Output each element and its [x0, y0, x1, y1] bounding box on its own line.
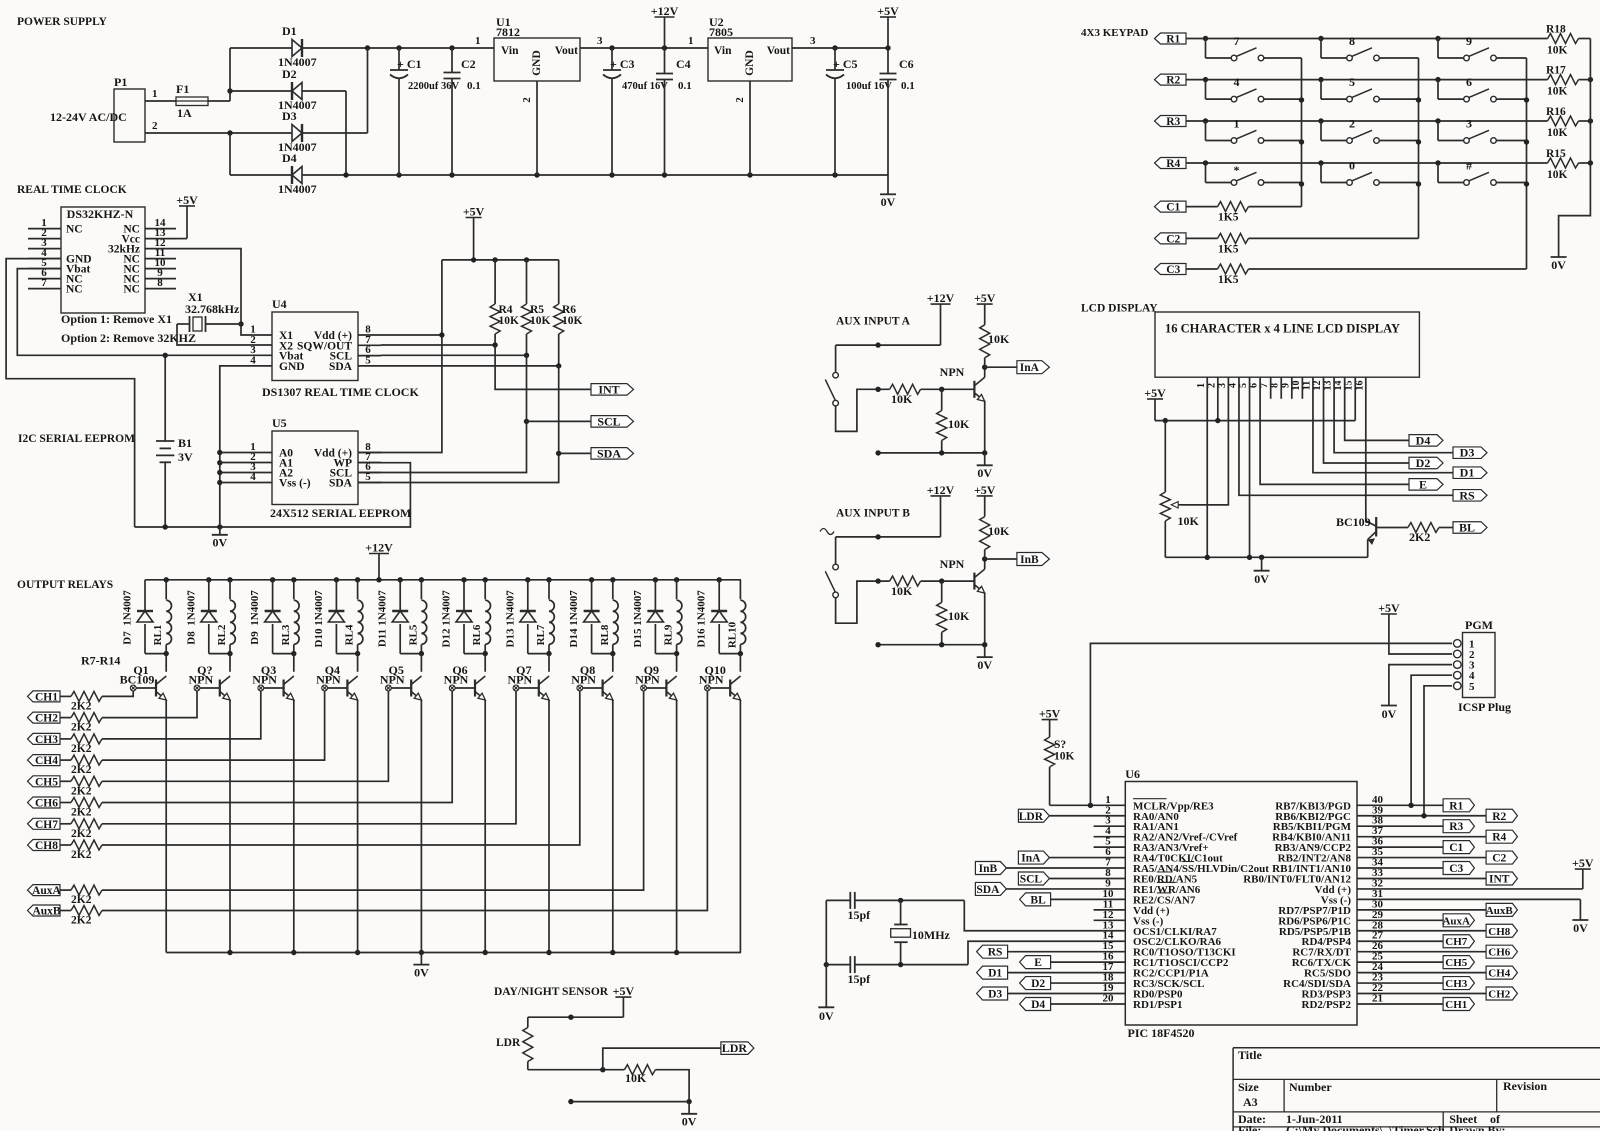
+5V rail LCD [1155, 420, 1355, 422]
wire 1K5 to column [1249, 206, 1302, 208]
wire pin26 to CH6 [1357, 951, 1486, 953]
svg-text:0V: 0V [682, 1115, 697, 1129]
net flag C1 [1155, 201, 1187, 212]
svg-text:LDR: LDR [1019, 811, 1044, 823]
connector P1 [114, 89, 145, 142]
resistor R15 10K [1548, 158, 1579, 168]
svg-text:0.1: 0.1 [678, 80, 692, 92]
svg-text:15pf: 15pf [848, 972, 872, 986]
wire +5V to ICSP pin2 [1389, 614, 1452, 654]
svg-text:File:: File: [1238, 1123, 1261, 1131]
svg-text:D1: D1 [282, 24, 297, 38]
net flag C1 [1443, 841, 1474, 854]
wire D7 to RL1 bottom [145, 653, 166, 655]
svg-text:DS1307 REAL TIME CLOCK: DS1307 REAL TIME CLOCK [262, 385, 419, 399]
svg-text:AUX INPUT A: AUX INPUT A [836, 316, 911, 328]
svg-text:InB: InB [979, 863, 998, 875]
relay coil RL5 [420, 580, 422, 600]
svg-text:INT: INT [598, 382, 619, 396]
svg-text:U5: U5 [272, 416, 287, 430]
svg-text:Vss (-): Vss (-) [279, 478, 311, 490]
U6 pin5 stub [1094, 846, 1126, 848]
svg-text:10K: 10K [562, 315, 583, 327]
svg-text:8: 8 [157, 277, 163, 289]
svg-text:R2: R2 [1492, 811, 1506, 823]
svg-text:+5V: +5V [974, 483, 996, 497]
svg-text:NPN: NPN [571, 673, 596, 687]
diode D7 1N4007 [144, 580, 146, 611]
svg-text:GND: GND [744, 50, 756, 76]
wire divider to LDR flag [603, 1048, 721, 1070]
wire pin29 to AuxA [1357, 919, 1443, 921]
svg-text:0V: 0V [1573, 921, 1588, 935]
svg-text:2K2: 2K2 [71, 700, 92, 712]
svg-text:RS: RS [1459, 488, 1475, 502]
net flag CH6 [28, 797, 61, 808]
net flag RS lcd [1453, 490, 1487, 502]
+12V relay rail [145, 579, 741, 581]
wire C2 row [1186, 237, 1218, 239]
wire node B down to D4 [229, 133, 231, 175]
svg-text:RL1: RL1 [152, 625, 164, 646]
net flag CH5 pic [1443, 956, 1474, 969]
svg-text:R3: R3 [1449, 821, 1463, 833]
svg-text:CH4: CH4 [1488, 968, 1511, 980]
wire pin39 to R2 [1357, 815, 1486, 817]
net flag BL to pin10 [1020, 893, 1051, 906]
wire to flag InB [985, 558, 1017, 560]
wire D12 to RL6 bottom [464, 653, 485, 655]
wire +12V feed aux A [836, 344, 941, 346]
svg-text:Vout: Vout [767, 45, 790, 57]
net flag SDA [591, 448, 634, 460]
wire fuse to bridge node A [208, 100, 230, 102]
wire emitter aux B [984, 593, 986, 645]
resistor 2K2 CH2 [60, 717, 71, 719]
wire base junction aux A [921, 388, 975, 390]
svg-text:SCL: SCL [597, 414, 620, 428]
wire pin37 to R4 [1357, 836, 1486, 838]
net flag E lcd [1409, 479, 1443, 491]
LCD pin 6 line to E [1260, 377, 1409, 484]
svg-text:R16: R16 [1546, 106, 1566, 118]
svg-text:R15: R15 [1546, 148, 1566, 160]
svg-text:C2: C2 [461, 57, 476, 71]
wire D3 cathode up to +rail [302, 132, 368, 134]
resistor 10K collector aux A [984, 304, 986, 325]
net flag R2 [1486, 809, 1517, 822]
row wire R1 [1186, 38, 1548, 40]
svg-text:+ C1: + C1 [397, 57, 422, 71]
capacitor 15pf bottom [849, 956, 851, 973]
svg-text:9: 9 [1466, 34, 1472, 48]
ground 0V aux B [984, 645, 986, 657]
svg-text:D14: D14 [568, 628, 580, 647]
net flag CH6 pic [1486, 945, 1517, 958]
svg-text:P1: P1 [114, 75, 127, 89]
U6 pin3 stub [1094, 825, 1126, 827]
svg-text:+ C5: + C5 [833, 57, 858, 71]
wire Vbat net [17, 269, 272, 356]
ground 0V LCD [1261, 557, 1263, 570]
IC DS32KHZ-N [61, 207, 145, 313]
svg-text:RD1/PSP1: RD1/PSP1 [1133, 999, 1183, 1011]
U5 pin 7 line [358, 462, 381, 464]
svg-text:CH3: CH3 [1445, 978, 1468, 990]
transistor Q3 [293, 654, 295, 672]
svg-text:+5V: +5V [1039, 707, 1061, 721]
svg-text:D1: D1 [1460, 466, 1475, 480]
svg-text:7812: 7812 [496, 25, 520, 39]
svg-text:+5V: +5V [463, 205, 485, 219]
svg-text:E: E [1034, 957, 1042, 969]
base entry marker Q7 [513, 685, 519, 691]
net flag InA [1017, 361, 1050, 374]
svg-text:4: 4 [250, 471, 256, 483]
svg-text:CH8: CH8 [1488, 926, 1511, 938]
U6 pin11 stub [1094, 909, 1126, 911]
wire SCL net down [358, 355, 527, 472]
svg-text:2K2: 2K2 [71, 764, 92, 776]
U5 pin 1 line [220, 452, 272, 454]
svg-text:CH4: CH4 [35, 755, 58, 767]
LCD pin 16 line to BC109 collector [1365, 377, 1367, 521]
resistor 1K5 C3 [1218, 264, 1249, 274]
svg-text:NPN: NPN [380, 673, 405, 687]
svg-text:InA: InA [1020, 362, 1040, 374]
wire pin28 to CH8 [1357, 930, 1486, 932]
svg-text:32.768kHz: 32.768kHz [185, 302, 240, 316]
wire collector aux B [984, 559, 986, 569]
keypad switch 6 [1437, 80, 1439, 100]
relay coil RL7 [548, 580, 550, 600]
svg-text:NC: NC [66, 224, 83, 236]
svg-text:REAL TIME CLOCK: REAL TIME CLOCK [17, 184, 127, 196]
U5 pin 4 line [220, 482, 272, 484]
resistor 1K5 C2 [1218, 233, 1249, 243]
wire +5V down to U5 Vdd [358, 260, 442, 453]
wire pin31 Vss to 0V [1357, 898, 1580, 900]
svg-text:1N4007: 1N4007 [504, 590, 516, 626]
svg-text:AuxB: AuxB [1486, 905, 1514, 917]
svg-text:CH2: CH2 [1488, 989, 1511, 1001]
svg-text:1N4007: 1N4007 [185, 590, 197, 626]
svg-text:RD2/PSP2: RD2/PSP2 [1302, 999, 1352, 1011]
svg-text:10K: 10K [1547, 86, 1568, 98]
net flag R3 [1443, 820, 1474, 833]
wire pin34 to C3 [1357, 867, 1443, 869]
relay coil RL3 [293, 580, 295, 600]
svg-text:0V: 0V [977, 466, 992, 480]
U5 pin 2 line [220, 462, 272, 464]
relay coil RL10 [739, 580, 741, 600]
svg-text:DAY/NIGHT SENSOR: DAY/NIGHT SENSOR [494, 986, 609, 998]
wire 32kHz pin12 to U4 X1 [176, 249, 272, 335]
net flag LDR [721, 1042, 754, 1055]
0V rail aux A [878, 452, 985, 454]
svg-text:1: 1 [688, 35, 694, 47]
svg-text:PIC 18F4520: PIC 18F4520 [1128, 1026, 1195, 1040]
svg-text:0.1: 0.1 [901, 80, 915, 92]
svg-text:AUX INPUT B: AUX INPUT B [836, 507, 910, 519]
wire AuxB to transistor base [102, 691, 707, 911]
svg-text:R2: R2 [1166, 75, 1180, 87]
svg-text:CH1: CH1 [1445, 999, 1467, 1011]
wire CH6 to transistor base [102, 691, 452, 803]
diode D3 [292, 125, 302, 142]
wire U4 GND pin4 to ground chain [220, 366, 272, 527]
svg-text:1: 1 [475, 35, 481, 47]
net flag E to pin16 [1020, 956, 1051, 969]
wire D11 to RL5 bottom [400, 653, 421, 655]
svg-text:10K: 10K [1054, 751, 1075, 763]
wire pin27 to CH7 [1357, 940, 1443, 942]
svg-text:1N4007: 1N4007 [377, 590, 389, 626]
svg-text:CH1: CH1 [35, 691, 58, 703]
svg-text:2: 2 [152, 120, 158, 132]
DS32KHZ pin 13 [145, 238, 176, 240]
svg-text:0V: 0V [819, 1009, 834, 1023]
SS overline pin7 [1182, 861, 1194, 863]
wire CH1 to transistor base [102, 691, 133, 697]
svg-text:F1: F1 [176, 82, 189, 96]
svg-text:D10: D10 [313, 628, 325, 647]
svg-text:4: 4 [1234, 75, 1240, 89]
LCD pin 15 line to +5V [1354, 377, 1356, 420]
svg-text:3: 3 [597, 35, 603, 47]
svg-text:E: E [1419, 477, 1427, 491]
DS32KHZ pin 12 [145, 248, 176, 250]
svg-text:3: 3 [810, 35, 816, 47]
svg-text:1K5: 1K5 [1218, 212, 1239, 224]
resistor R18 10K [1548, 34, 1579, 44]
svg-text:7: 7 [41, 277, 47, 289]
svg-text:CH5: CH5 [1445, 957, 1468, 969]
svg-text:+5V: +5V [1572, 856, 1594, 870]
net flag D1 to pin17 [977, 966, 1008, 979]
svg-text:2K2: 2K2 [71, 849, 92, 861]
net flag CH3 [28, 733, 61, 744]
svg-text:RL3: RL3 [280, 624, 292, 645]
svg-text:12-24V AC/DC: 12-24V AC/DC [50, 110, 127, 124]
row wire R3 [1186, 120, 1548, 122]
U5 pin 8 line [358, 452, 381, 454]
svg-text:1: 1 [1196, 383, 1207, 388]
svg-text:0V: 0V [977, 658, 992, 672]
svg-text:NPN: NPN [252, 673, 277, 687]
net flag C2 [1486, 851, 1517, 864]
LCD pin 14 line to D4 [1345, 377, 1409, 440]
wire CH3 to transistor base [102, 691, 261, 739]
svg-text:+5V: +5V [613, 984, 635, 998]
svg-text:1N4007: 1N4007 [441, 590, 453, 626]
svg-text:100uf 16V: 100uf 16V [846, 81, 892, 92]
wire CH4 to transistor base [102, 691, 325, 760]
switch S aux A [835, 345, 837, 372]
wire pin38 to R3 [1357, 825, 1443, 827]
base entry marker Q9 [641, 685, 647, 691]
row wire R4 [1186, 162, 1548, 164]
svg-text:C:\My Documents\..\Timer.Sch: C:\My Documents\..\Timer.Sch [1286, 1123, 1445, 1131]
IC U4 DS1307 [272, 312, 358, 381]
wire pin13 to crystal [964, 900, 1125, 930]
wire U4 SQW pin7 / INT [381, 344, 495, 346]
LCD pin 5 line to 0V [1249, 377, 1251, 557]
crystal node top wire [826, 899, 850, 901]
svg-text:SDA: SDA [329, 361, 353, 373]
svg-text:R3: R3 [1166, 116, 1180, 128]
net flag D4 to pin20 [1020, 997, 1051, 1010]
wire switch to base row aux A [836, 389, 890, 431]
svg-text:10K: 10K [948, 417, 970, 431]
svg-text:10K: 10K [1178, 514, 1200, 528]
resistor 1K5 C1 [1218, 202, 1249, 212]
svg-text:BL: BL [1030, 894, 1046, 906]
svg-text:NPN: NPN [940, 557, 965, 571]
svg-text:D3: D3 [988, 989, 1002, 1001]
net flag D4 lcd [1409, 435, 1443, 447]
net flag R1 [1443, 799, 1474, 812]
resistor 10K day/night [624, 1065, 655, 1075]
svg-text:1: 1 [1234, 117, 1240, 131]
resistor 2K2 CH7 [60, 823, 71, 825]
wire D16 to RL10 bottom [719, 653, 740, 655]
wire 10K to ground [655, 1070, 689, 1102]
svg-text:Drawn By:: Drawn By: [1449, 1123, 1505, 1131]
potentiometer 10K LCD contrast [1164, 421, 1166, 492]
net flag AuxA pic [1443, 914, 1474, 927]
svg-text:U6: U6 [1125, 767, 1140, 781]
wire U4 SCL pin6 [381, 354, 527, 356]
svg-text:CH2: CH2 [35, 713, 58, 725]
svg-text:0V: 0V [1382, 707, 1397, 721]
resistor 10K series aux B [890, 576, 921, 586]
svg-text:R4: R4 [1492, 832, 1506, 844]
svg-text:2K2: 2K2 [71, 807, 92, 819]
svg-text:+12V: +12V [651, 4, 679, 18]
diode D1 [230, 47, 292, 49]
wire 1K5 to column [1249, 237, 1419, 239]
capacitor C6 [887, 48, 889, 74]
svg-text:C3: C3 [1166, 264, 1180, 276]
svg-text:RL8: RL8 [599, 624, 611, 645]
svg-text:D12: D12 [441, 628, 453, 647]
net flag CH7 [28, 818, 61, 829]
wire ICSP pin4 PGD to pin40 [1411, 675, 1452, 805]
keypad switch 5 [1320, 80, 1322, 100]
wire SDA net down [358, 366, 559, 483]
net flag D2 lcd [1409, 457, 1443, 469]
wire R18 to common [1579, 38, 1591, 40]
svg-text:10K: 10K [499, 315, 520, 327]
svg-text:GND: GND [279, 361, 305, 373]
wire D15 to RL9 bottom [655, 653, 676, 655]
svg-text:Number: Number [1289, 1080, 1332, 1094]
IC U5 24X512 EEPROM [272, 431, 358, 505]
crystal node bottom wire [826, 964, 850, 966]
transistor Q? [229, 654, 231, 672]
svg-text:NC: NC [66, 284, 83, 296]
svg-text:4: 4 [250, 354, 256, 366]
net flag InA to pin6 [1018, 851, 1049, 864]
svg-text:C6: C6 [899, 57, 914, 71]
capacitor C2 [451, 48, 453, 73]
regulator U2 7805 [708, 38, 792, 81]
LCD pin 4 line to RS [1239, 377, 1453, 495]
ground 0V keypad [1551, 256, 1567, 258]
wire switch to base row aux B [836, 581, 890, 623]
svg-text:SCL: SCL [1020, 873, 1043, 885]
net flag CH3 pic [1443, 977, 1474, 990]
diode D9 1N4007 [272, 580, 274, 611]
keypad switch 7 [1205, 39, 1207, 59]
pot wiper wire [1181, 504, 1228, 506]
wire pin36 to C1 [1357, 846, 1443, 848]
net flag AuxA [28, 885, 61, 896]
net flag INT pic [1486, 872, 1517, 885]
ground 0V crystal [818, 1006, 834, 1008]
svg-text:CH5: CH5 [35, 776, 58, 788]
net flag CH2 [28, 712, 61, 723]
resistor 2K2 AuxA [60, 889, 71, 891]
wire ICSP pin5 PGC to pin39 [1424, 686, 1452, 816]
ground 0V day/night [688, 1102, 690, 1114]
svg-text:SDA: SDA [597, 446, 621, 460]
svg-text:Option 2: Remove 32KHZ: Option 2: Remove 32KHZ [61, 331, 196, 345]
wire R16 to common [1579, 120, 1591, 122]
svg-text:A3: A3 [1243, 1095, 1258, 1109]
svg-text:Size: Size [1238, 1080, 1259, 1094]
svg-text:NPN: NPN [444, 673, 469, 687]
0V rail aux B [878, 644, 985, 646]
wire D10 to RL4 bottom [336, 653, 357, 655]
RD overline pin8 [1157, 871, 1173, 873]
diode D12 1N4007 [463, 580, 465, 611]
net flag D3 lcd [1453, 447, 1487, 459]
svg-text:10MHz: 10MHz [912, 928, 951, 942]
svg-text:GND: GND [531, 50, 543, 76]
svg-text:16 CHARACTER x 4 LINE LCD DISP: 16 CHARACTER x 4 LINE LCD DISPLAY [1165, 322, 1400, 336]
base entry marker Q3 [258, 685, 264, 691]
wire to flag InA [985, 366, 1017, 368]
wire pin33 to INT [1357, 877, 1486, 879]
transistor Q1 [165, 654, 167, 672]
resistor 10K pulldown aux B [941, 581, 943, 602]
transistor BC109 LCD backlight [1366, 521, 1376, 527]
transistor Q6 [484, 654, 486, 672]
wire pin24 to CH4 [1357, 972, 1486, 974]
svg-text:0V: 0V [1551, 258, 1566, 272]
svg-text:0V: 0V [414, 966, 429, 980]
U4 pin 7 line [358, 344, 381, 346]
wire pin40 to R1 [1357, 804, 1443, 806]
resistor 2K2 backlight [1408, 523, 1439, 533]
svg-text:2K2: 2K2 [71, 915, 92, 927]
BC109 base wire [1376, 527, 1408, 529]
svg-text:CH6: CH6 [1488, 947, 1511, 959]
net flag InB to pin7 [975, 862, 1006, 875]
svg-text:8: 8 [1349, 34, 1355, 48]
DS32KHZ pin 14 [145, 228, 176, 230]
wire +5V to LDR [528, 1016, 624, 1018]
keypad switch 4 [1205, 80, 1207, 100]
svg-text:10K: 10K [530, 315, 551, 327]
svg-text:D4: D4 [282, 151, 297, 165]
wire 1K5 to column [1249, 268, 1527, 270]
svg-text:PGM: PGM [1465, 618, 1493, 632]
transistor Q7 [548, 654, 550, 672]
crystal X1 [177, 323, 190, 325]
